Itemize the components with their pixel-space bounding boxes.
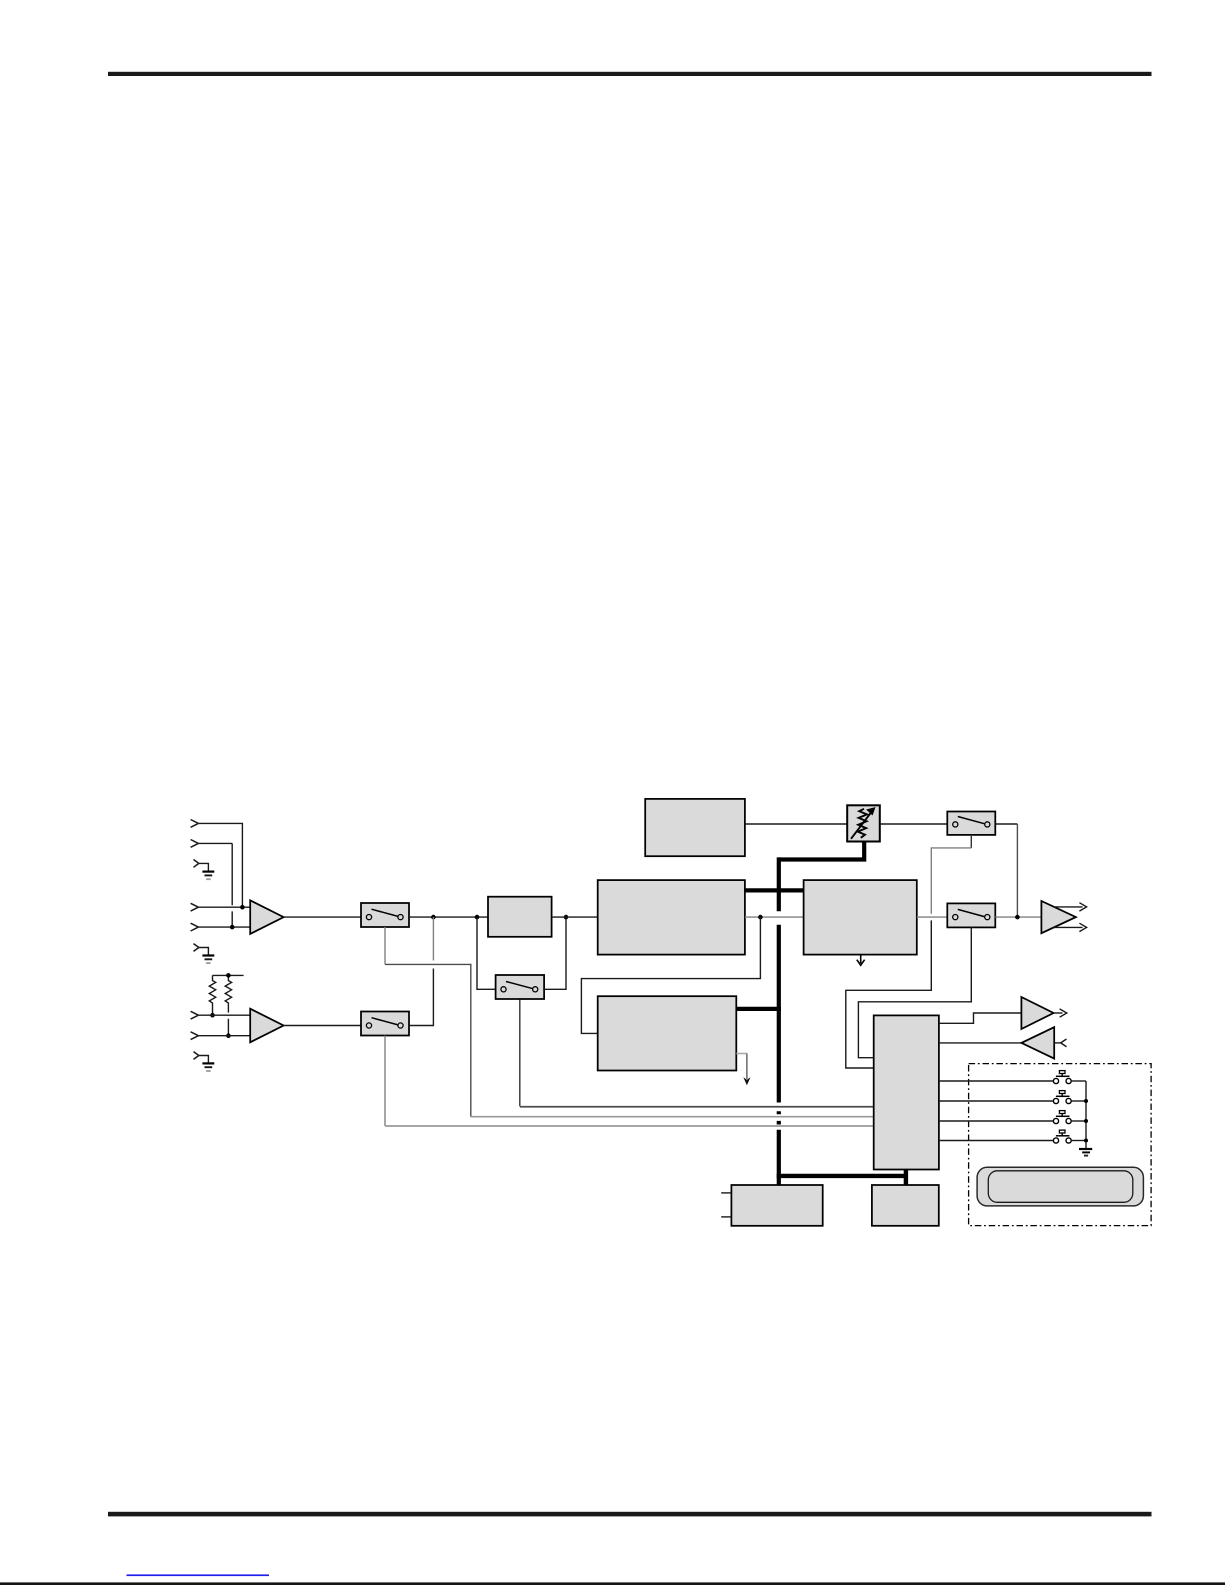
node dot output join [1015, 915, 1020, 920]
op-amp A1 (line input amp) [250, 900, 283, 934]
ground G3 [202, 1063, 214, 1071]
thick wire controller to B5 [904, 1170, 908, 1186]
input connector J6 (ground pin) [194, 944, 199, 952]
wire tap down to DSP2 [581, 917, 760, 1033]
wire J5 to amp A1 [198, 926, 250, 928]
panel dashed boundary [969, 1064, 1152, 1226]
wire controller to amp A4 [939, 1013, 1022, 1023]
thick bus attenuator drop [779, 841, 864, 859]
arrow output L [1054, 906, 1083, 908]
input connector J8 (guitar in -) [191, 1032, 199, 1040]
wire J4 to amp A1 [198, 906, 250, 908]
resistor top bar wire [213, 974, 244, 976]
resistor R1 [209, 975, 215, 1015]
op-amp A3 (line output amp) [1041, 901, 1076, 933]
wire J1 to node [198, 823, 242, 907]
footer link underline [127, 1574, 270, 1576]
wire attenuator to SW4 [880, 823, 948, 825]
wire DAC to SW5 (gray main) [917, 916, 948, 918]
wire SW5 out to amp A3 [995, 916, 1041, 918]
resistor R2 (hop gap at wire crossing) [225, 975, 231, 1035]
input connector J5 (aux in L -) [191, 923, 199, 931]
LCD display outer [977, 1167, 1143, 1206]
wire J2 to node (hop gap at wire crossing) [198, 843, 232, 927]
node dot SB4 bus [1084, 1139, 1088, 1143]
input connector J1 (L line in) [191, 820, 199, 828]
node dot DSP1 tap [758, 915, 763, 920]
control wire SW5 to controller [858, 927, 971, 1057]
control wire SW4 to controller (hop gap at main wire) [970, 835, 972, 848]
arrow DAC bottom out [860, 955, 862, 964]
input connector J3 (ground pin) [194, 860, 199, 868]
wire SW4 out to output node [995, 823, 1017, 825]
switch SW2 (EQ bypass) [496, 975, 544, 999]
block DAC [804, 880, 917, 955]
top rule [108, 72, 1152, 76]
wire controller to button SB2 [939, 1100, 1053, 1102]
node dot SW3 join [431, 915, 436, 920]
block DSP2 (rhythm) [598, 996, 737, 1070]
op-amp A4 (phones out amp) [1021, 997, 1053, 1029]
node dot SB2 bus [1084, 1099, 1088, 1103]
wire J3 to ground [199, 863, 209, 871]
wire B1 to attenuator [745, 823, 847, 825]
attenuator VR1 (variable resistor) [847, 805, 880, 841]
block B1 (tuner) [645, 799, 745, 856]
connector pedal in [1054, 1042, 1061, 1044]
ground G2 [202, 956, 214, 964]
LCD display inner [988, 1171, 1133, 1203]
switch SW4 (tuner out switch) [947, 812, 995, 835]
bottom rule [108, 1512, 1152, 1517]
arrow DSP2 right out [736, 1053, 747, 1055]
thick wire DSP1 to DAC [745, 888, 804, 892]
control wire SW2 to controller [519, 999, 521, 1106]
wire J6 to ground [199, 948, 209, 956]
control wire SW1 to controller [384, 927, 386, 964]
ground G4 (button common) [1079, 1149, 1092, 1156]
control wire SW3 to controller [384, 1036, 386, 1127]
switch SW3 (instrument mute) [361, 1012, 409, 1036]
node dot J1/amp wire [240, 905, 245, 910]
block B4 (power supply) [731, 1185, 822, 1226]
op-amp A5 (control input buffer, left pointing) [1021, 1027, 1054, 1058]
wire SW1 out to EQ box [409, 916, 488, 918]
arrow phones out [1054, 1012, 1063, 1014]
wire DSP1 to DAC (gray main) [745, 916, 804, 918]
thick wire DSP2 to bus [736, 1007, 781, 1011]
block DSP1 (effects processor) [598, 880, 745, 955]
input connector J7 (guitar in +) [191, 1011, 199, 1019]
wire controller to button SB4 [939, 1140, 1053, 1142]
wire bypass down to SW2 [477, 917, 496, 989]
node dot J2/amp wire [230, 925, 235, 930]
switch SW1 (line mute) [361, 903, 409, 927]
pin stub B4 lower [721, 1216, 731, 1218]
pushbutton SB3 [1053, 1111, 1086, 1124]
wire A2 out to SW3 [284, 1025, 361, 1027]
input connector J4 (aux in L +) [191, 903, 199, 911]
node dot R2 on wire [226, 1033, 231, 1038]
pushbutton SB4 [1053, 1130, 1086, 1143]
input connector J9 (ground pin) [194, 1052, 199, 1060]
node dot R1 on wire [210, 1013, 215, 1018]
block EQ [488, 897, 552, 937]
arrow output R [1054, 926, 1083, 928]
node dot bypass left [475, 915, 480, 920]
wire button common bus [1085, 1081, 1087, 1148]
wire controller to button SB1 [939, 1080, 1053, 1082]
wire controller to button SB3 [939, 1120, 1053, 1122]
wire SW3 out up to main node (hop gap) [432, 917, 434, 960]
wire J7 to amp A2 [198, 1014, 250, 1016]
page bottom border [0, 1582, 1225, 1585]
wire J9 to ground [199, 1056, 209, 1064]
pin stub B4 upper [721, 1192, 731, 1194]
pushbutton SB1 [1053, 1071, 1086, 1084]
node dot bypass right [564, 915, 569, 920]
block controller U1 [874, 1015, 939, 1169]
input connector J2 (R line in) [191, 840, 199, 848]
wire controller to amp A5 [939, 1042, 1022, 1044]
block B5 (memory) [872, 1185, 939, 1226]
wire EQ to DSP1 [552, 916, 598, 918]
thick bus vertical (with hop gaps) [777, 857, 781, 1185]
thick bus bottom horizontal [777, 1174, 906, 1178]
node dot SB3 bus [1084, 1119, 1088, 1123]
wire SW2 out up to main node [544, 917, 566, 989]
ground G1 [202, 872, 214, 880]
op-amp A2 (instrument input amp) [250, 1009, 283, 1043]
wire J8 to amp A2 [198, 1035, 250, 1037]
wire A1 out to SW1 [284, 916, 361, 918]
switch SW5 (output mute) [947, 903, 995, 927]
node dot resistor bar [226, 973, 231, 978]
pushbutton SB2 [1053, 1091, 1086, 1104]
